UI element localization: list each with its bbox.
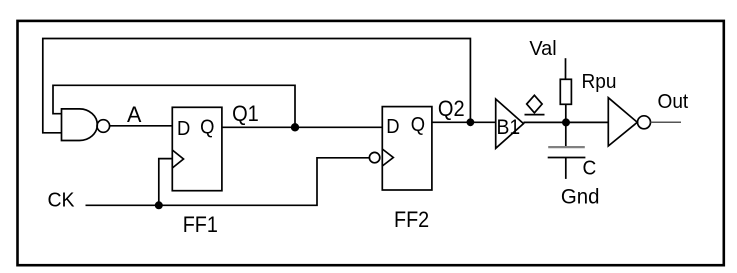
svg-text:CK: CK	[48, 189, 76, 212]
svg-text:D: D	[177, 118, 190, 140]
svg-text:FF2: FF2	[394, 208, 429, 232]
svg-text:B1: B1	[497, 115, 521, 139]
svg-text:Out: Out	[658, 91, 689, 114]
svg-text:Q2: Q2	[438, 97, 465, 121]
svg-text:Q: Q	[200, 117, 214, 139]
svg-text:Gnd: Gnd	[561, 185, 600, 209]
svg-text:A: A	[127, 102, 142, 127]
svg-text:Q1: Q1	[232, 102, 259, 126]
svg-text:C: C	[583, 157, 597, 180]
svg-text:D: D	[386, 116, 399, 138]
svg-text:Val: Val	[529, 38, 556, 60]
svg-text:FF1: FF1	[183, 213, 218, 237]
svg-text:Rpu: Rpu	[582, 70, 617, 93]
svg-text:Q: Q	[411, 115, 425, 137]
